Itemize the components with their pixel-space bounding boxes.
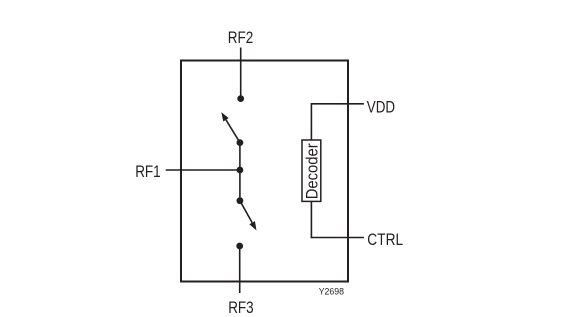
svg-text:RF3: RF3 [228, 299, 254, 317]
svg-text:CTRL: CTRL [367, 231, 403, 249]
svg-text:Decoder: Decoder [304, 143, 322, 200]
svg-text:RF2: RF2 [228, 29, 254, 47]
svg-text:RF1: RF1 [135, 163, 161, 181]
svg-text:VDD: VDD [367, 99, 395, 117]
svg-text:Y2698: Y2698 [319, 286, 344, 296]
